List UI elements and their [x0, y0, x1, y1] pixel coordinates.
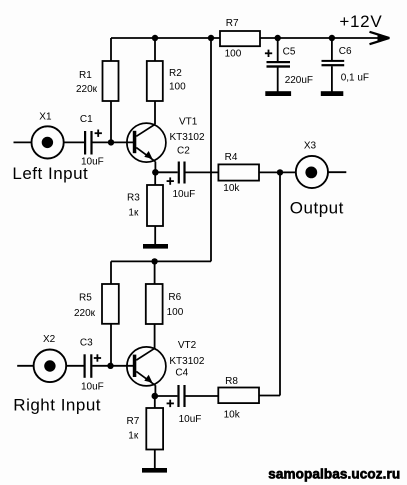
svg-text:R7: R7: [127, 416, 140, 427]
svg-text:10k: 10k: [224, 409, 241, 420]
svg-text:1к: 1к: [128, 431, 139, 442]
svg-text:C4: C4: [175, 367, 188, 378]
svg-text:R7: R7: [226, 18, 239, 29]
svg-text:10uF: 10uF: [81, 382, 104, 393]
svg-text:10uF: 10uF: [179, 414, 202, 425]
svg-text:220uF: 220uF: [285, 75, 313, 86]
svg-text:100: 100: [225, 49, 242, 60]
svg-text:10k: 10k: [223, 183, 240, 194]
svg-text:X2: X2: [43, 334, 56, 345]
svg-text:C3: C3: [80, 338, 93, 349]
svg-text:C6: C6: [339, 46, 352, 57]
svg-text:R1: R1: [79, 70, 92, 81]
svg-text:VT1: VT1: [179, 117, 198, 128]
svg-text:+12V: +12V: [339, 12, 382, 31]
svg-text:220к: 220к: [74, 308, 96, 319]
svg-text:R2: R2: [169, 68, 182, 79]
svg-text:100: 100: [167, 307, 184, 318]
svg-text:Right Input: Right Input: [13, 395, 101, 414]
svg-text:R3: R3: [127, 192, 140, 203]
svg-text:R4: R4: [225, 152, 238, 163]
svg-text:KT3102: KT3102: [169, 356, 204, 367]
svg-text:R8: R8: [225, 376, 238, 387]
svg-text:0,1 uF: 0,1 uF: [341, 72, 369, 83]
svg-text:KT3102: KT3102: [170, 132, 205, 143]
svg-text:1к: 1к: [128, 208, 139, 219]
svg-text:VT2: VT2: [178, 340, 197, 351]
svg-text:Left Input: Left Input: [12, 164, 88, 183]
svg-text:C1: C1: [80, 114, 93, 125]
svg-text:R5: R5: [79, 293, 92, 304]
svg-text:C2: C2: [177, 146, 190, 157]
svg-text:Output: Output: [290, 198, 344, 217]
svg-text:R6: R6: [168, 292, 181, 303]
svg-text:220к: 220к: [76, 84, 98, 95]
svg-text:10uF: 10uF: [173, 189, 196, 200]
svg-text:X3: X3: [304, 141, 317, 152]
svg-text:X1: X1: [39, 112, 52, 123]
svg-text:100: 100: [169, 81, 186, 92]
svg-text:C5: C5: [283, 47, 296, 58]
svg-text:samopalbas.ucoz.ru: samopalbas.ucoz.ru: [268, 466, 400, 481]
